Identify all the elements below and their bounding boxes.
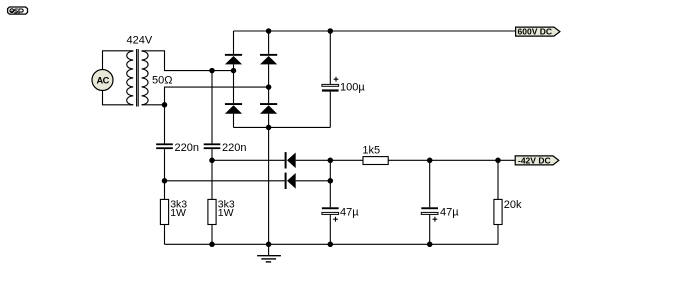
wire left bridge column <box>233 31 235 54</box>
wire center down to ground rail <box>268 127 270 244</box>
transformer T1 secondary winding <box>142 51 148 105</box>
transformer T1 core <box>136 49 138 107</box>
junction dot wire B at right bridge column <box>266 84 272 90</box>
wire R4 bottom <box>497 225 499 245</box>
wire node C vertical link <box>329 160 331 207</box>
wire C4 bottom <box>329 215 331 244</box>
junction dot C3 bottom / lower output wire <box>162 178 168 184</box>
junction dot node C lower <box>328 178 334 184</box>
junction dot C5 top <box>427 158 433 164</box>
upper output wire to D5 <box>212 159 285 161</box>
svg-text:50Ω: 50Ω <box>152 74 172 86</box>
resistor R4 20k branch <box>497 160 499 199</box>
lower output wire to D6 <box>165 180 285 182</box>
junction dot node B <box>162 102 168 108</box>
resistor R2 3k3 (right) <box>208 199 235 225</box>
resistor R3 1k5 <box>362 144 388 164</box>
diode D2 bridge right top <box>260 54 277 65</box>
capacitor C2 220n <box>204 143 221 149</box>
AC source V1 <box>92 70 113 91</box>
ESP logo <box>8 7 28 14</box>
tag 600V DC <box>516 27 560 37</box>
transformer T1 primary winding <box>127 51 133 105</box>
svg-text:100µ: 100µ <box>340 81 365 93</box>
junction dot top rail right column <box>266 28 272 34</box>
svg-text:1W: 1W <box>218 207 234 219</box>
svg-text:220n: 220n <box>175 142 199 154</box>
capacitor C4 47u (left) <box>322 207 339 221</box>
wire R1 bottom <box>164 225 166 245</box>
wire secondary top to bridge (node A) <box>142 51 234 71</box>
svg-text:1W: 1W <box>170 207 186 219</box>
svg-text:47µ: 47µ <box>340 207 359 219</box>
wire D5 cathode to node C <box>296 159 363 161</box>
wire node B up and right to bridge right column <box>165 87 269 105</box>
svg-text:47µ: 47µ <box>440 207 459 219</box>
wire D6 cathode to node C <box>296 180 331 182</box>
capacitor C2 220n branch (right) <box>211 71 213 144</box>
junction dot wire A at left bridge column <box>231 68 237 74</box>
capacitor C1 100u <box>322 77 339 92</box>
junction dot bridge bottom / ground branch <box>266 125 272 130</box>
svg-text:-42V DC: -42V DC <box>518 155 551 165</box>
wire right bridge column <box>268 31 270 54</box>
wire primary top <box>103 51 134 70</box>
wire secondary bottom (node B) <box>142 104 165 106</box>
tag -42V DC <box>515 155 559 165</box>
diode D1 bridge left top <box>225 54 242 65</box>
capacitor C3 220n branch (left) <box>164 105 166 144</box>
svg-text:600V DC: 600V DC <box>518 27 553 37</box>
junction dot node C upper <box>328 158 334 164</box>
diode D4 bridge right bottom <box>260 103 277 114</box>
wire 1k5 to -42V tag <box>388 159 515 161</box>
svg-text:AC: AC <box>96 75 109 85</box>
junction dot R4 top <box>495 158 501 164</box>
bridge bottom rail <box>234 126 331 128</box>
svg-text:424V: 424V <box>127 35 153 47</box>
junction dot secondary tap / C2 top <box>209 68 215 74</box>
junction dot bottom rail C4 <box>328 242 334 248</box>
diode D6 (lower, pointing left) <box>285 173 296 189</box>
junction dot bottom rail C5 <box>427 242 433 248</box>
diode D5 (upper, pointing left) <box>285 152 296 168</box>
junction dot bottom rail R2 <box>209 242 215 248</box>
junction dot top rail C1 branch <box>328 28 334 34</box>
capacitor C3 220n <box>156 143 173 149</box>
wire primary bottom <box>103 91 134 105</box>
resistor R4 20k <box>494 199 522 225</box>
bottom rail (0V) <box>165 243 499 245</box>
resistor R1 3k3 (left) <box>160 199 187 225</box>
capacitor C5 47u (right) <box>421 207 438 221</box>
wire C5 bottom <box>429 215 431 244</box>
junction dot bottom rail ground <box>266 242 272 248</box>
diode D3 bridge left bottom <box>225 103 242 114</box>
wire R2 bottom <box>211 225 213 245</box>
junction dot C2 bottom / upper output wire <box>209 158 215 164</box>
svg-text:1k5: 1k5 <box>362 144 380 156</box>
svg-text:220n: 220n <box>222 142 246 154</box>
capacitor C1 100u branch wires <box>329 31 331 84</box>
capacitor C5 47u (right) branch <box>429 160 431 207</box>
svg-text:20k: 20k <box>504 199 522 211</box>
top rail +600V <box>234 30 516 32</box>
ground <box>257 244 281 262</box>
